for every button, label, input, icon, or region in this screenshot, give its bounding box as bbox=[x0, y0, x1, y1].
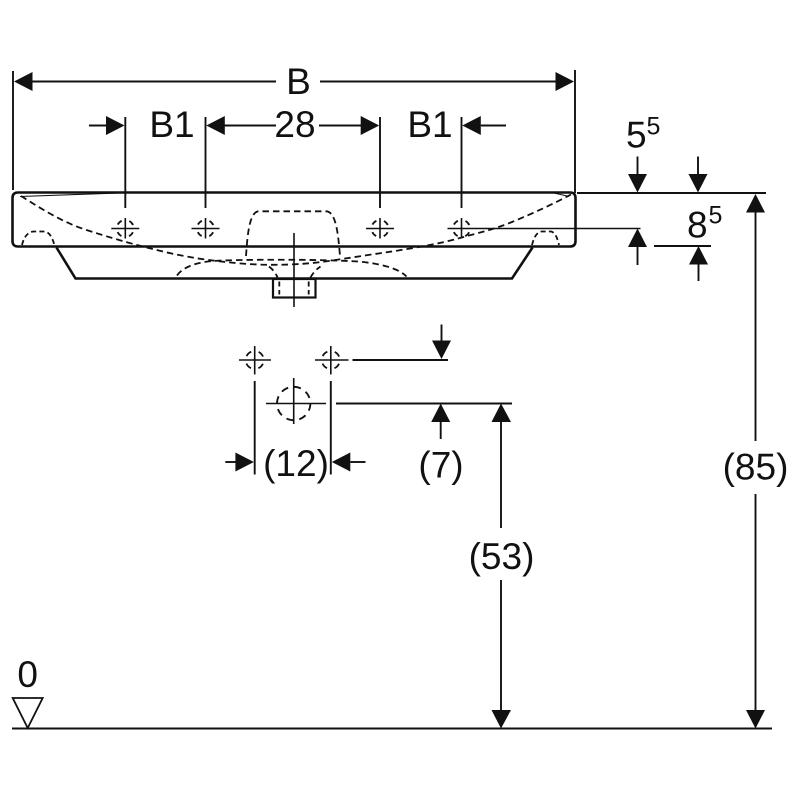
washbasin rim outline bbox=[13, 193, 576, 247]
tap hole dashed circle bbox=[266, 378, 326, 424]
arrowhead B left bbox=[14, 72, 33, 91]
hole 1 bbox=[111, 218, 139, 239]
dimension B1 left: outside arrow bbox=[89, 125, 106, 127]
extension line hole 4 bbox=[461, 117, 463, 208]
extension line right of B bbox=[574, 70, 576, 193]
hidden contour: right bump bbox=[532, 232, 559, 246]
dim (53): vertical line with arrows bbox=[492, 404, 512, 423]
hidden contour: funnel to drain right bbox=[311, 267, 321, 278]
line C: rim bottom extended right bbox=[654, 245, 711, 247]
svg-text:5: 5 bbox=[647, 113, 661, 141]
drain centerline bbox=[293, 233, 295, 307]
extension line left of B bbox=[12, 71, 14, 190]
svg-text:8: 8 bbox=[687, 205, 708, 246]
small fixing hole right bbox=[315, 346, 349, 375]
line A: top edge extended right bbox=[577, 192, 766, 194]
svg-text:28: 28 bbox=[274, 104, 315, 145]
extension line small holes row bbox=[353, 359, 449, 361]
svg-text:0: 0 bbox=[17, 654, 38, 695]
small fixing hole left bbox=[239, 346, 271, 375]
svg-text:B1: B1 bbox=[407, 104, 452, 145]
dim (7): up arrow bbox=[431, 404, 450, 423]
hidden contour: main sweep curve bbox=[21, 195, 571, 265]
dim (85): vertical line with arrows bbox=[746, 194, 765, 213]
extension line hole 3 bbox=[379, 117, 381, 208]
dim (7): down arrow bbox=[441, 325, 443, 343]
hole 4 with extension to the right bbox=[448, 218, 641, 239]
dimension 28: left arrow bbox=[206, 116, 225, 135]
svg-text:B1: B1 bbox=[149, 104, 194, 145]
rim top bevel left bbox=[20, 192, 138, 196]
drain outlet bbox=[273, 279, 316, 298]
dim (12): extension lines below small holes bbox=[254, 381, 256, 475]
dimension line B bbox=[31, 81, 276, 83]
datum triangle bbox=[13, 698, 43, 728]
dim 8.5: up arrow at rim bottom line bbox=[689, 246, 708, 265]
extension line hole 2 bbox=[205, 117, 207, 208]
hole 3 bbox=[366, 218, 394, 239]
dim 5.5: down arrow 1 bbox=[637, 157, 639, 177]
svg-text:5: 5 bbox=[626, 115, 647, 156]
dim (12): left outside arrow bbox=[225, 461, 237, 463]
svg-text:(85): (85) bbox=[723, 447, 789, 488]
hidden contour: drain tower bbox=[246, 211, 340, 256]
extension line tap hole row bbox=[336, 403, 512, 405]
dimension 28: right arrow bbox=[319, 125, 361, 127]
drain hidden walls bbox=[278, 282, 280, 295]
hidden contour: left bump bbox=[22, 232, 55, 246]
svg-text:(7): (7) bbox=[418, 445, 463, 486]
dim 8.5: down arrow 2 bbox=[697, 157, 699, 177]
rim top bevel right bbox=[552, 193, 569, 197]
svg-text:(53): (53) bbox=[469, 536, 535, 577]
hole 2 bbox=[192, 218, 220, 239]
hidden contour: funnel to drain left bbox=[269, 267, 278, 278]
floor line bbox=[12, 728, 772, 730]
hidden contour: bowl bottom line bbox=[177, 260, 407, 277]
arrowhead B right bbox=[556, 72, 575, 91]
dim 5.5: up arrow at hole line bbox=[628, 229, 647, 248]
apron outline bbox=[57, 248, 533, 279]
svg-text:(12): (12) bbox=[263, 443, 329, 484]
svg-text:5: 5 bbox=[709, 202, 723, 230]
svg-text:B: B bbox=[286, 61, 311, 102]
dimension B1 right: outside arrow bbox=[462, 116, 481, 135]
extension line hole 1 bbox=[124, 117, 126, 208]
dim (12): right outside arrow bbox=[332, 453, 351, 472]
